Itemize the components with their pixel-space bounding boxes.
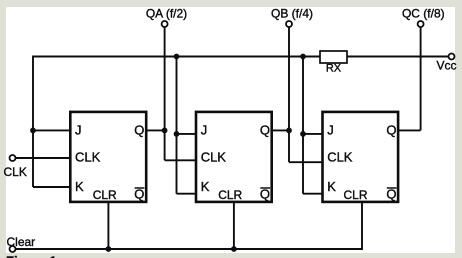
- junction J1 feed: [30, 127, 36, 133]
- node QC terminal: [418, 21, 424, 27]
- svg-text:QC (f/8): QC (f/8): [402, 7, 445, 21]
- pin label Q of U1: [134, 123, 144, 138]
- svg-text:CLK: CLK: [201, 150, 227, 165]
- pin label Qbar of U2: [260, 186, 270, 201]
- label RX: [326, 63, 342, 75]
- node Vcc terminal: [449, 54, 455, 60]
- pin label Qbar of U1: [134, 186, 144, 201]
- pin label J of U1: [75, 123, 82, 138]
- wire Q3 output to node QC: [398, 129, 420, 131]
- label QA (f/2): [146, 7, 187, 21]
- svg-text:CLR: CLR: [218, 188, 242, 202]
- pin label K of U3: [327, 179, 336, 194]
- label QC (f/8): [402, 7, 445, 21]
- label Vcc: [437, 58, 457, 72]
- wire QC terminal stub: [420, 27, 422, 130]
- wire QA terminal stub and U2 clock feed: [165, 27, 196, 160]
- node CLK input terminal: [10, 155, 16, 161]
- junction J3 branch: [300, 131, 306, 137]
- node Clear input terminal: [10, 246, 16, 252]
- flip-flop U1: [70, 112, 146, 202]
- pin label K of U2: [201, 179, 210, 194]
- pin label CLK of U2: [201, 150, 227, 165]
- pin label CLR of U3: [343, 188, 367, 202]
- svg-text:J: J: [75, 123, 82, 138]
- wire Q2 output to node QB: [272, 129, 289, 131]
- node QA terminal: [162, 21, 168, 27]
- label CLK input: [4, 165, 27, 179]
- wire QB terminal stub and U3 clock feed: [289, 27, 322, 162]
- flip-flop U2: [196, 112, 272, 202]
- svg-text:Vcc: Vcc: [437, 58, 457, 72]
- svg-text:Figure 1: Figure 1: [6, 254, 57, 258]
- svg-text:Clear: Clear: [7, 235, 36, 249]
- label Figure 1 caption (clipped at bottom): [6, 254, 57, 258]
- junction Clear at U1: [106, 246, 112, 252]
- pin label CLK of U1: [75, 150, 101, 165]
- label Clear: [7, 235, 36, 249]
- node QB terminal: [286, 21, 292, 27]
- svg-text:RX: RX: [326, 63, 342, 75]
- pin label Qbar of U3: [386, 186, 396, 201]
- svg-text:QB (f/4): QB (f/4): [271, 7, 313, 21]
- wire Vcc bus: [33, 56, 448, 58]
- svg-text:Q: Q: [260, 123, 270, 138]
- svg-text:CLK: CLK: [327, 150, 353, 165]
- label QB (f/4): [271, 7, 313, 21]
- wire CLR of U1 to Clear line: [107, 203, 109, 250]
- flip-flop U3: [323, 112, 399, 202]
- junction bus drop 3 on bus: [300, 54, 306, 60]
- svg-text:CLK: CLK: [4, 165, 27, 179]
- wire CLR of U2 to Clear line: [233, 203, 235, 250]
- pin label Q of U2: [260, 123, 270, 138]
- svg-text:K: K: [327, 179, 336, 194]
- junction node QA at Q1: [162, 127, 168, 133]
- svg-text:K: K: [75, 179, 84, 194]
- svg-text:J: J: [201, 123, 208, 138]
- wire CLK input to U1: [16, 157, 70, 159]
- junction J2 branch: [174, 131, 180, 137]
- pin label CLR of U2: [218, 188, 242, 202]
- wire Clear line and CLR of U3: [16, 203, 362, 250]
- pin label K of U1: [75, 179, 84, 194]
- wire bus drop to J2/K2: [177, 57, 197, 194]
- svg-text:J: J: [327, 123, 334, 138]
- svg-text:K: K: [201, 179, 210, 194]
- junction Clear at U2: [231, 246, 237, 252]
- wire Q1 output to node QA: [147, 129, 165, 131]
- wire J1/K1 feed from bus: [33, 56, 70, 188]
- pin label Q of U3: [386, 123, 396, 138]
- svg-text:QA (f/2): QA (f/2): [146, 7, 187, 21]
- pin label J of U3: [327, 123, 334, 138]
- junction node QB at Q2: [286, 127, 292, 133]
- svg-text:Q: Q: [386, 123, 396, 138]
- pin label CLK of U3: [327, 150, 353, 165]
- svg-text:Q: Q: [134, 123, 144, 138]
- svg-text:CLR: CLR: [93, 188, 117, 202]
- junction bus drop 2 on bus: [174, 54, 180, 60]
- svg-text:CLR: CLR: [343, 188, 367, 202]
- wire bus drop to J3/K3: [303, 57, 322, 194]
- pin label CLR of U1: [93, 188, 117, 202]
- resistor RX: [320, 51, 347, 63]
- pin label J of U2: [201, 123, 208, 138]
- svg-text:CLK: CLK: [75, 150, 101, 165]
